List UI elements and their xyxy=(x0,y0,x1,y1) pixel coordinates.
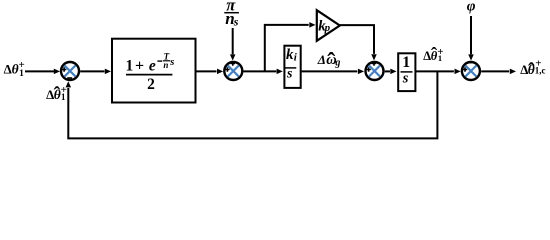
S1 minus sign (south feedback input) xyxy=(67,77,72,79)
wire kp output over and down into S3 xyxy=(340,25,374,54)
svg-text:s: s xyxy=(286,66,293,81)
svg-text:φ: φ xyxy=(467,0,476,15)
svg-text:e: e xyxy=(149,57,156,74)
svg-text:ˆ: ˆ xyxy=(327,50,335,76)
op-amp style gain triangle kp xyxy=(317,10,340,41)
svg-text:1: 1 xyxy=(402,54,410,71)
node label &Delta;&omega;hat g xyxy=(317,50,341,76)
node pi/ns reference label xyxy=(224,0,239,29)
wire S3 to block B3 xyxy=(385,70,390,72)
summing junction S3 xyxy=(366,62,384,80)
svg-text:s: s xyxy=(233,15,239,29)
node label &Delta;&theta;hat1+ after integrator xyxy=(423,44,443,65)
summing junction S1 xyxy=(61,62,79,80)
svg-text:ˆ: ˆ xyxy=(54,83,61,105)
block B2 integrator ki/s xyxy=(284,46,300,88)
svg-text:1: 1 xyxy=(438,53,442,63)
summing junction S2 xyxy=(224,62,242,80)
node input label &Delta;&theta;1+ xyxy=(4,59,25,79)
svg-text:s: s xyxy=(402,70,409,86)
svg-text:Δ: Δ xyxy=(317,52,326,67)
block B1 transfer function (1+e^(-T/n s))/2 xyxy=(112,39,196,103)
svg-text:s: s xyxy=(169,57,174,68)
node output label &Delta;&theta;hat1,c+ xyxy=(520,57,545,81)
svg-text:1: 1 xyxy=(61,92,66,102)
S3 plus sign (west input) xyxy=(366,67,370,71)
wire S4 to output xyxy=(481,70,509,72)
S1 plus sign (west input) xyxy=(62,67,66,71)
S4 plus sign (west input) xyxy=(463,67,467,71)
svg-text:+: + xyxy=(135,57,144,74)
wire phi down into S4 xyxy=(470,16,472,54)
wire S2 to block B2 with branch node xyxy=(244,70,277,72)
wire input to summing junction S1 xyxy=(25,70,55,72)
svg-text:1,c: 1,c xyxy=(535,65,546,75)
svg-text:g: g xyxy=(334,57,340,68)
block B3 integrator 1/s xyxy=(398,53,415,91)
svg-text:2: 2 xyxy=(147,76,155,93)
S3 plus sign (north input) xyxy=(372,61,376,65)
svg-text:Δ: Δ xyxy=(4,62,12,77)
svg-text:1: 1 xyxy=(126,58,134,75)
svg-text:n: n xyxy=(163,60,168,70)
wire S1 to block B1 xyxy=(80,70,104,72)
node feedback label &Delta;&theta;hat1+ xyxy=(46,83,67,105)
wire pi/ns down into S2 xyxy=(232,28,234,54)
summing junction S4 xyxy=(462,62,480,80)
wire B1 to summing junction S2 xyxy=(197,70,217,72)
wire feedback loop from branch after B3 down and back to S1 xyxy=(68,71,437,138)
wire B2 to summing junction S3 xyxy=(302,70,358,72)
svg-text:p: p xyxy=(324,22,331,34)
S2 plus sign (north input) xyxy=(231,61,235,65)
wire branch up to gain kp xyxy=(265,25,309,72)
svg-text:k: k xyxy=(286,47,294,63)
S2 plus sign (west input) xyxy=(225,67,229,71)
svg-text:1: 1 xyxy=(19,69,24,79)
wire B3 to summing junction S4 with feedback branch node xyxy=(416,70,454,72)
S4 minus sign (north input) xyxy=(468,62,473,64)
